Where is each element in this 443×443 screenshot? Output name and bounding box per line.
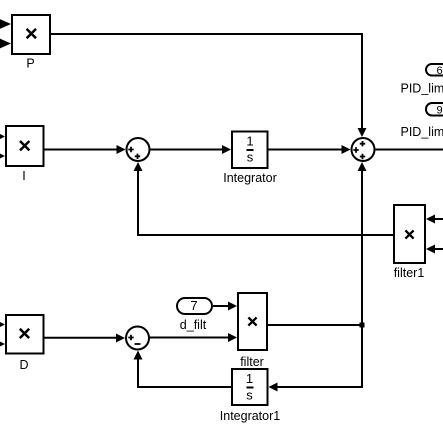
svg-text:7: 7 [190,298,197,313]
wire filter1 output to Sum2 bottom [134,162,394,235]
label PID_lim (port 9) [401,125,443,139]
label filter1 [394,266,425,280]
output port 6 [426,64,443,77]
input arrow 2 of D [0,340,5,349]
svg-text:1: 1 [246,134,253,149]
svg-text:I: I [22,169,25,183]
svg-text:D: D [19,358,28,372]
wire Sum3 output to filter [149,333,237,342]
product block P [12,15,50,54]
label PID_lim (port 6) [401,82,443,96]
wire D output to Sum3 [45,334,126,343]
svg-text:filter1: filter1 [394,266,425,280]
wire filter output to junction [268,324,362,326]
product block filter [238,293,267,350]
svg-text:Integrator: Integrator [223,171,277,185]
output port 9 [426,103,443,117]
label Integrator1 [220,409,281,423]
wire Integrator1 output to Sum3 bottom [134,351,232,388]
input arrow 2 of P [0,37,11,49]
wire Sum1 output to right edge [376,149,443,151]
wire junction up to Sum1 bottom [358,162,367,325]
product block D [6,315,44,354]
svg-text:Integrator1: Integrator1 [220,409,281,423]
svg-text:1: 1 [246,371,253,386]
svg-text:PID_limits: PID_limits [401,82,443,96]
svg-text:6: 6 [436,65,442,77]
sum Sum3 (D branch) [126,327,149,350]
label Integrator [223,171,277,185]
svg-text:9: 9 [436,105,442,117]
integrator block Integrator1 [232,369,268,405]
svg-text:s: s [246,388,253,403]
svg-text:PID_limits: PID_limits [401,125,443,139]
junction node [360,323,365,328]
label filter [240,355,264,369]
constant block d_filt [177,298,212,314]
wire input 2 to filter1 from right edge [426,245,443,254]
sum Sum1 (output sum) [352,138,375,161]
integrator block Integrator [232,132,268,169]
svg-text:s: s [247,150,254,165]
wire input 1 to filter1 from right edge [426,215,443,224]
svg-text:P: P [26,57,34,71]
label I [22,169,25,183]
wire I output to Sum2 [45,145,126,154]
label d_filt [180,318,207,332]
input arrow 2 of I [0,152,5,161]
label P [26,57,34,71]
input arrow 1 of P [0,18,11,30]
sum Sum2 (I branch) [127,138,150,161]
wire junction down to Integrator1 input [269,325,363,392]
input arrow 1 of I [0,132,5,141]
product block filter1 [394,205,425,263]
input arrow 1 of D [0,320,5,329]
wire Sum2 output to Integrator [151,145,232,154]
wire P output to Sum1 top [51,34,367,137]
label D [19,358,28,372]
wire d_filt output to filter [213,302,237,311]
svg-text:filter: filter [240,355,264,369]
wire Integrator output to Sum1 [269,145,351,154]
product block I [6,126,44,166]
svg-text:d_filt: d_filt [180,318,207,332]
